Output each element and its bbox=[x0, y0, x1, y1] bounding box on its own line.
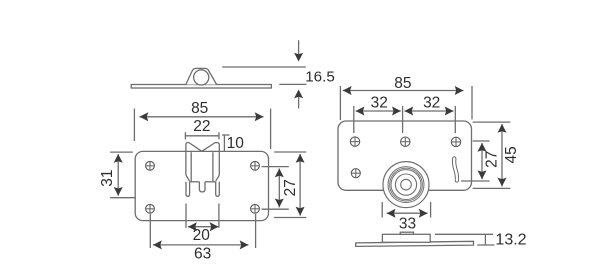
svg-text:31: 31 bbox=[99, 169, 116, 186]
svg-text:33: 33 bbox=[399, 215, 416, 232]
svg-text:63: 63 bbox=[194, 246, 211, 263]
svg-text:27: 27 bbox=[282, 179, 299, 196]
svg-text:45: 45 bbox=[503, 146, 520, 163]
svg-text:13.2: 13.2 bbox=[495, 232, 526, 249]
svg-text:85: 85 bbox=[191, 100, 208, 117]
svg-text:32: 32 bbox=[423, 95, 440, 112]
svg-text:22: 22 bbox=[193, 118, 210, 135]
svg-text:27: 27 bbox=[484, 151, 501, 168]
svg-text:32: 32 bbox=[371, 95, 388, 112]
svg-text:16.5: 16.5 bbox=[305, 69, 335, 86]
svg-text:10: 10 bbox=[227, 135, 245, 152]
svg-text:85: 85 bbox=[394, 75, 411, 92]
svg-text:20: 20 bbox=[193, 227, 211, 244]
